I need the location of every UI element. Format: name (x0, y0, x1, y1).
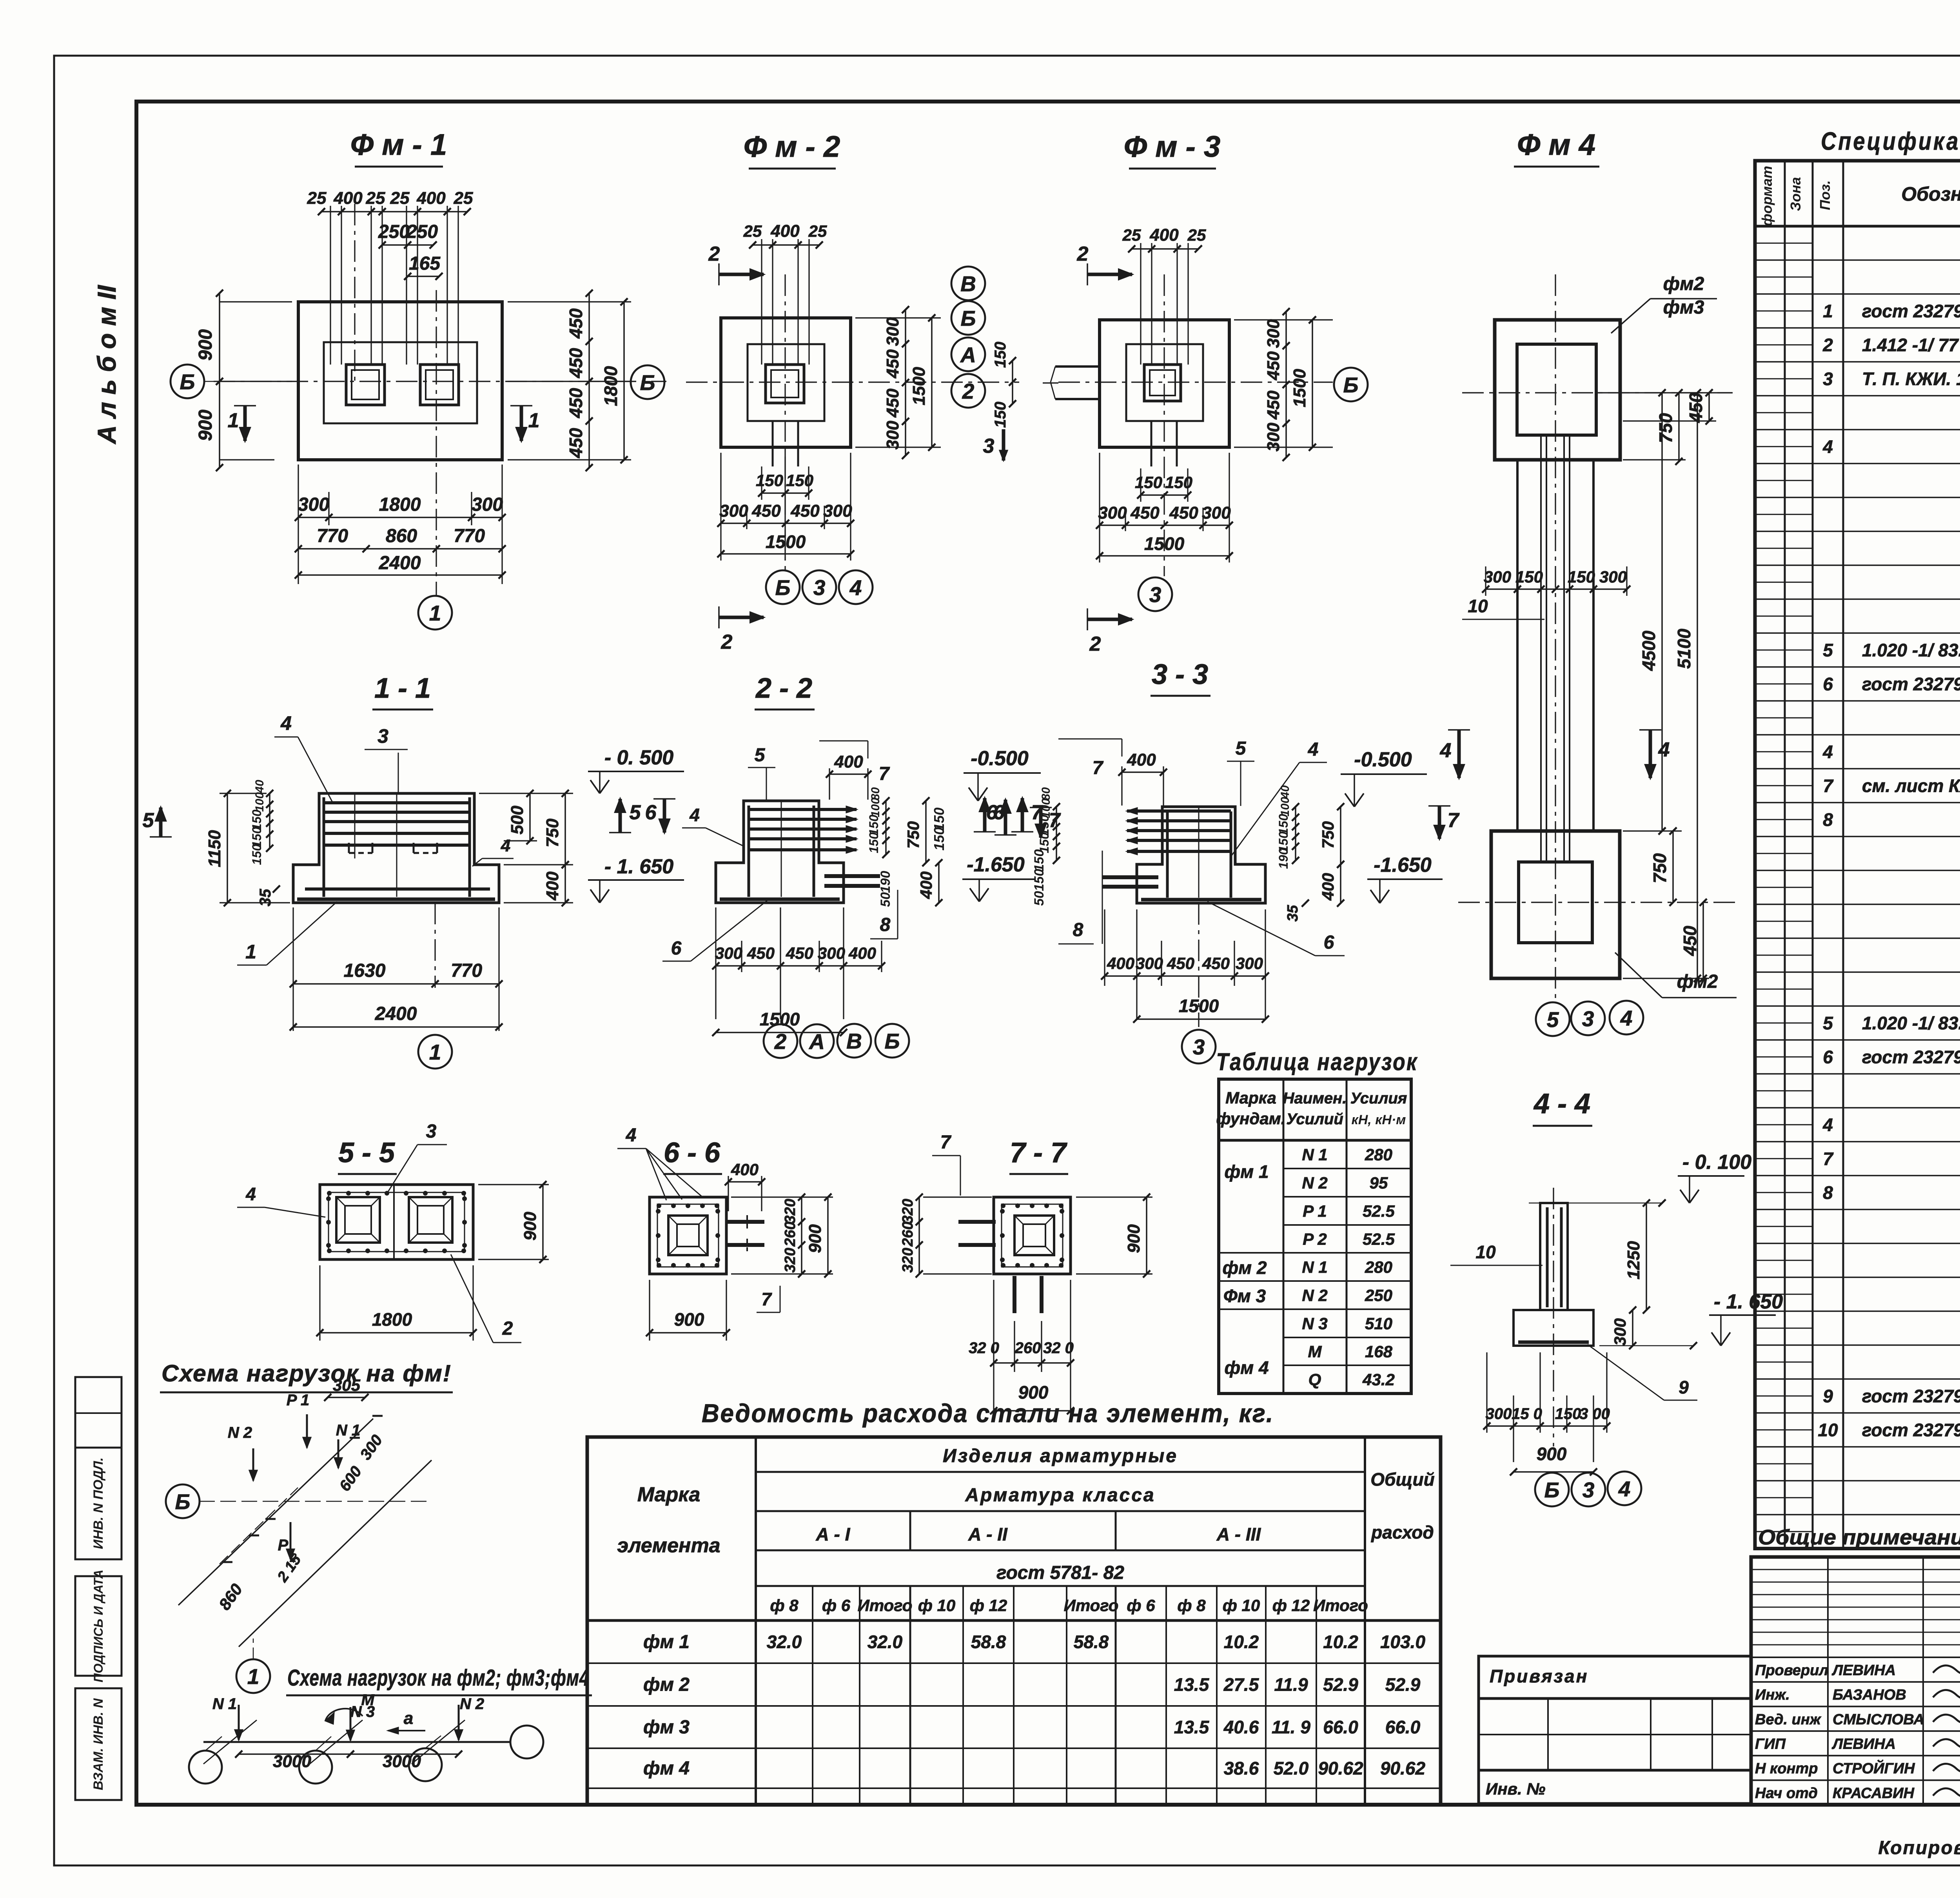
svg-text:770: 770 (451, 960, 482, 981)
svg-text:Б: Б (1544, 1478, 1560, 1502)
svg-text:Инв. №: Инв. № (1486, 1780, 1545, 1798)
svg-text:300: 300 (1264, 423, 1283, 452)
svg-text:150: 150 (1135, 473, 1162, 492)
Фм-1 top dimensions 25 400 25 25 400 25 (330, 206, 331, 365)
svg-text:Схема нагрузок на фм!: Схема нагрузок на фм! (162, 1360, 452, 1386)
svg-text:900: 900 (1124, 1224, 1143, 1253)
svg-text:кН, кН·м: кН, кН·м (1352, 1112, 1406, 1127)
Фм-3 right dim chain 300 450 450 300 (1234, 319, 1333, 320)
svg-text:расход: расход (1370, 1522, 1434, 1542)
svg-text:250: 250 (1365, 1286, 1392, 1305)
svg-text:1250: 1250 (1624, 1241, 1643, 1279)
svg-text:-0.500: -0.500 (1354, 748, 1412, 771)
svg-text:100: 100 (253, 792, 266, 812)
Фм-3 section mark 2 bottom (1087, 618, 1132, 621)
svg-text:Б: Б (775, 575, 791, 600)
svg-text:1500: 1500 (760, 1009, 800, 1029)
Фм-1 right dims 450x4 and 1800 (508, 301, 631, 302)
svg-text:400: 400 (416, 189, 446, 208)
svg-text:52.5: 52.5 (1363, 1202, 1395, 1220)
svg-text:2: 2 (774, 1029, 787, 1054)
section 1-1 label 3 (398, 753, 399, 793)
Фм4 right dims 750 450 top (1678, 393, 1680, 461)
section 3-3 lower anchor bars (1102, 875, 1158, 879)
section 5-5 dim 1800 (319, 1265, 320, 1341)
svg-text:13.5: 13.5 (1174, 1675, 1210, 1695)
svg-text:Б: Б (961, 306, 976, 330)
section 2-2 top dim 400 and label 7 (829, 768, 830, 800)
svg-text:165: 165 (409, 253, 441, 274)
svg-text:2: 2 (962, 379, 975, 403)
section 5-5 pocket right (409, 1197, 452, 1243)
section 5-5 pocket left (336, 1197, 380, 1243)
svg-text:3: 3 (983, 435, 995, 457)
svg-text:Итого: Итого (858, 1596, 913, 1615)
svg-text:5: 5 (1236, 738, 1247, 759)
svg-text:900: 900 (1537, 1444, 1567, 1464)
svg-text:32.0: 32.0 (767, 1632, 802, 1652)
Фм-3 footing outline (1100, 320, 1229, 447)
svg-text:3: 3 (426, 1121, 437, 1142)
Фм-1 axis circle Б left (171, 365, 204, 398)
svg-text:фм 2: фм 2 (1222, 1257, 1267, 1278)
Фм-1 axes (214, 381, 666, 382)
svg-text:260: 260 (1014, 1339, 1041, 1357)
svg-text:100: 100 (869, 798, 882, 817)
svg-text:450: 450 (1169, 503, 1198, 523)
svg-text:гост 23279 - 85: гост 23279 - 85 (1862, 1047, 1960, 1067)
svg-text:5100: 5100 (1674, 628, 1694, 669)
svg-text:фм 1: фм 1 (643, 1632, 690, 1653)
section 3-3 bottom dims 400 300 450 450 300 (1104, 909, 1105, 986)
svg-text:6: 6 (986, 801, 998, 824)
svg-text:4500: 4500 (1639, 630, 1659, 671)
Фм-3 adjoining wall strip left (1055, 365, 1100, 368)
svg-text:900: 900 (195, 410, 216, 441)
svg-text:4: 4 (501, 836, 510, 855)
svg-text:6 - 6: 6 - 6 (664, 1137, 720, 1169)
Фм4 axes (1555, 274, 1556, 1003)
svg-text:4: 4 (1822, 1114, 1833, 1135)
svg-text:Б: Б (175, 1490, 191, 1514)
svg-text:N 2: N 2 (228, 1424, 252, 1441)
svg-text:80: 80 (1040, 787, 1053, 800)
svg-text:52.9: 52.9 (1323, 1675, 1358, 1695)
svg-text:400: 400 (333, 189, 363, 208)
section 7-7 outline (994, 1197, 1071, 1274)
svg-text:150: 150 (1165, 473, 1192, 492)
svg-text:9: 9 (1823, 1386, 1833, 1406)
svg-text:25: 25 (808, 222, 827, 240)
section 6-6 protruding bars right (726, 1220, 764, 1224)
svg-text:8: 8 (1823, 809, 1833, 830)
Фм-1 section mark 1 left (243, 406, 247, 441)
svg-text:ф 12: ф 12 (1272, 1596, 1310, 1615)
svg-text:300: 300 (818, 944, 845, 962)
svg-text:150: 150 (931, 827, 947, 851)
svg-text:1: 1 (1823, 301, 1833, 321)
svg-text:ф 8: ф 8 (770, 1596, 799, 1615)
section 7-7 bottom dims 320 260 320 900 (993, 1280, 994, 1415)
svg-text:10: 10 (1468, 596, 1488, 616)
Фм-3 top dims 25 400 25 (1140, 243, 1141, 365)
svg-text:35: 35 (257, 889, 274, 906)
svg-text:4: 4 (849, 575, 862, 600)
svg-text:N 1: N 1 (212, 1695, 237, 1713)
section 4-4 dim 1250 (1646, 1203, 1647, 1310)
load table grid (1219, 1079, 1411, 1394)
svg-text:ф 10: ф 10 (1223, 1596, 1260, 1615)
Фм-2 bottom dims 150 150 (784, 451, 786, 561)
svg-text:7: 7 (1448, 809, 1460, 832)
svg-text:Зона: Зона (1788, 177, 1804, 211)
svg-text:Итого: Итого (1064, 1596, 1119, 1615)
svg-text:400: 400 (1319, 873, 1337, 901)
section 4-4 column (1540, 1203, 1568, 1310)
svg-text:5: 5 (1547, 1007, 1559, 1032)
svg-text:1: 1 (228, 409, 239, 432)
svg-text:Б: Б (180, 370, 195, 394)
svg-text:А - I: А - I (816, 1524, 851, 1544)
svg-text:450: 450 (1686, 392, 1706, 423)
section 2-2 bottom dims 300 450 450 300 400 (715, 907, 716, 1019)
left margin stamp strip boxes (75, 1377, 122, 1448)
svg-text:52.0: 52.0 (1274, 1758, 1309, 1778)
svg-text:ф 8: ф 8 (1177, 1596, 1206, 1615)
svg-text:гост 23279 - 85: гост 23279 - 85 (1862, 301, 1960, 321)
svg-text:Схема нагрузок на фм2; фм3;фм4: Схема нагрузок на фм2; фм3;фм4 (287, 1665, 589, 1691)
svg-text:гост 5781- 82: гост 5781- 82 (996, 1562, 1124, 1583)
svg-text:260: 260 (900, 1221, 916, 1247)
svg-text:4: 4 (1440, 739, 1452, 762)
section 4-4 axis (1553, 1188, 1554, 1446)
svg-text:А - III: А - III (1216, 1524, 1261, 1544)
svg-text:4: 4 (1822, 436, 1833, 457)
svg-text:СТРОЙГИН: СТРОЙГИН (1833, 1759, 1915, 1777)
svg-text:10.2: 10.2 (1224, 1632, 1259, 1652)
svg-text:66.0: 66.0 (1323, 1717, 1358, 1737)
svg-text:103.0: 103.0 (1380, 1632, 1426, 1652)
section 1-1 axis circle 1 (418, 1035, 452, 1069)
Фм-1 bottom dims 300 1800 300 (298, 465, 299, 584)
steel table header rows (756, 1471, 1365, 1473)
Фм-1 bottom dims 770 860 770 (298, 548, 502, 550)
svg-text:3 - 3: 3 - 3 (1152, 659, 1208, 690)
Фм-2 axes (686, 381, 1019, 383)
svg-text:300: 300 (823, 501, 852, 521)
section 3-3 sole line (1141, 898, 1261, 902)
svg-text:32 0: 32 0 (969, 1339, 999, 1357)
svg-text:250: 250 (406, 221, 438, 242)
svg-text:280: 280 (1365, 1258, 1392, 1276)
section 7-7 pocket (1014, 1216, 1054, 1255)
svg-text:2: 2 (502, 1318, 513, 1339)
load scheme 1 circles (166, 1484, 200, 1518)
svg-text:10: 10 (1818, 1420, 1838, 1440)
Фм-3 bottom dims 150 150 (1140, 468, 1141, 502)
svg-text:300: 300 (1599, 568, 1627, 586)
svg-text:- 0. 500: - 0. 500 (604, 746, 673, 769)
Фм-2 section mark 2 bottom (719, 616, 764, 619)
svg-text:300: 300 (1136, 954, 1163, 973)
svg-text:N 2: N 2 (1302, 1174, 1327, 1192)
section 3-3 section marks 6 7 left (1004, 800, 1007, 835)
Фм4 long dims 4500 5100 (1661, 393, 1663, 831)
svg-text:43.2: 43.2 (1362, 1370, 1395, 1389)
svg-text:Q: Q (1308, 1370, 1321, 1389)
Фм4 bottom-left dims 300 150 150 300 (1486, 588, 1627, 590)
svg-text:4: 4 (626, 1125, 637, 1146)
svg-text:ВЗАМ. ИНВ. N: ВЗАМ. ИНВ. N (91, 1698, 106, 1790)
section 2-2 rebar with protruding bars (749, 808, 857, 811)
svg-text:А: А (960, 343, 976, 367)
svg-text:6: 6 (645, 801, 657, 824)
Фм-1 column pocket left (346, 365, 385, 405)
svg-text:3 00: 3 00 (1579, 1405, 1610, 1423)
svg-text:2400: 2400 (379, 553, 421, 573)
svg-text:25: 25 (454, 189, 473, 208)
svg-text:7: 7 (1823, 775, 1834, 796)
svg-text:95: 95 (1370, 1174, 1388, 1192)
svg-text:Ф м - 1: Ф м - 1 (350, 128, 447, 161)
svg-text:150: 150 (1515, 568, 1543, 586)
section 3-3 section marks right 4 7 (1438, 806, 1441, 839)
section 4-4 flange (1514, 1310, 1593, 1346)
svg-text:5: 5 (1823, 640, 1833, 660)
Фм-3 column pocket (1144, 365, 1181, 401)
svg-text:150: 150 (992, 402, 1009, 428)
svg-text:N 1: N 1 (1302, 1145, 1327, 1164)
svg-text:ПОДПИСЬ И ДАТА: ПОДПИСЬ И ДАТА (91, 1570, 105, 1682)
Фм4 top anchor block inner (1517, 344, 1596, 435)
svg-text:В: В (846, 1029, 862, 1053)
svg-text:450: 450 (1202, 954, 1230, 973)
svg-text:2: 2 (1822, 335, 1833, 355)
svg-text:900: 900 (521, 1212, 540, 1241)
svg-text:8: 8 (880, 915, 891, 935)
Фм-1 section mark 1 right (520, 406, 523, 441)
svg-text:450: 450 (883, 349, 902, 379)
section 6-6 right dims 320 260 320 900 (801, 1197, 802, 1274)
svg-text:ф 10: ф 10 (918, 1596, 956, 1615)
svg-text:7: 7 (761, 1289, 772, 1309)
svg-text:формат: формат (1759, 166, 1775, 226)
svg-text:1500: 1500 (766, 532, 806, 552)
svg-text:7: 7 (940, 1132, 952, 1153)
svg-text:450: 450 (566, 388, 586, 418)
svg-text:В: В (960, 272, 976, 296)
svg-text:52.5: 52.5 (1363, 1230, 1395, 1248)
section 6-6 outline (650, 1197, 726, 1274)
svg-text:860: 860 (386, 526, 417, 546)
svg-text:a: a (404, 1709, 413, 1728)
Фм4 leader фм2 bottom (1615, 953, 1662, 998)
svg-text:Усилия: Усилия (1350, 1090, 1407, 1107)
Фм-2 section mark 3 (1002, 429, 1005, 461)
svg-text:10.2: 10.2 (1323, 1632, 1358, 1652)
svg-text:гост 23279 - 85: гост 23279 - 85 (1862, 1386, 1960, 1406)
svg-text:5: 5 (755, 745, 766, 766)
svg-text:90.62: 90.62 (1380, 1758, 1426, 1778)
svg-text:300: 300 (883, 317, 902, 346)
svg-text:фм 4: фм 4 (1224, 1357, 1269, 1378)
svg-text:150: 150 (1032, 869, 1047, 891)
svg-text:N 1: N 1 (1302, 1258, 1327, 1276)
Фм4 column shaft (1516, 460, 1519, 831)
svg-text:3: 3 (377, 725, 388, 747)
svg-text:300: 300 (1236, 954, 1263, 973)
steel table outer (587, 1437, 1441, 1805)
svg-text:6: 6 (671, 938, 682, 959)
svg-text:5: 5 (630, 801, 641, 824)
svg-text:фундам.: фундам. (1216, 1109, 1286, 1128)
svg-text:P 1: P 1 (287, 1392, 310, 1409)
svg-text:25: 25 (390, 189, 410, 208)
title block signature rows (1751, 1657, 1960, 1658)
section 3-3 left dim stack (1056, 807, 1057, 860)
Фм-1 dim 250 250 (382, 244, 433, 246)
svg-text:-1.650: -1.650 (1374, 854, 1432, 876)
svg-text:Ф м - 2: Ф м - 2 (744, 130, 840, 163)
svg-text:190: 190 (1276, 848, 1290, 869)
svg-text:гост 23279 - 85: гост 23279 - 85 (1862, 1420, 1960, 1440)
svg-text:фм 4: фм 4 (643, 1758, 690, 1779)
section 1-1 section marks 5 6 (159, 807, 163, 837)
section 1-1 sole line (297, 898, 495, 901)
svg-text:50: 50 (1032, 891, 1047, 906)
Фм4 axis circles 5 3 4 (1536, 1002, 1570, 1036)
svg-text:ЛЕВИНА: ЛЕВИНА (1831, 1736, 1896, 1752)
section 2-2 right dim stacks (885, 801, 887, 855)
svg-text:Б: Б (640, 370, 655, 395)
svg-text:1: 1 (247, 1664, 260, 1689)
svg-text:280: 280 (1365, 1145, 1392, 1164)
svg-text:900: 900 (195, 329, 216, 361)
specification table outer and columns (1755, 161, 1960, 1549)
svg-text:150: 150 (992, 342, 1009, 368)
svg-text:500: 500 (508, 806, 527, 835)
svg-text:168: 168 (1365, 1343, 1393, 1361)
Фм-1 column pocket right (420, 365, 459, 405)
steel table header col splits (909, 1511, 911, 1550)
svg-text:N 2: N 2 (1302, 1286, 1327, 1305)
svg-text:150: 150 (1032, 849, 1047, 872)
svg-text:400: 400 (917, 871, 935, 899)
svg-text:4: 4 (1308, 739, 1319, 760)
Фм-1 footing outline (298, 302, 502, 460)
svg-text:ф 12: ф 12 (970, 1596, 1007, 1615)
svg-text:ИНВ. N ПОДЛ.: ИНВ. N ПОДЛ. (91, 1457, 106, 1549)
section 3-3 axis circle 3 (1198, 903, 1199, 1027)
section 5-5 dim 900 (478, 1184, 549, 1185)
svg-text:10: 10 (1475, 1242, 1496, 1262)
section 6-6 pocket (668, 1216, 708, 1255)
svg-text:450: 450 (786, 944, 813, 962)
svg-text:300: 300 (1202, 503, 1231, 523)
svg-text:3: 3 (1149, 582, 1161, 607)
svg-text:190: 190 (878, 871, 893, 893)
Фм-3 section mark 2 top (1087, 273, 1132, 276)
svg-text:300: 300 (472, 494, 503, 515)
svg-text:750: 750 (1650, 853, 1670, 883)
svg-text:P: P (278, 1537, 289, 1554)
svg-text:58.8: 58.8 (1074, 1632, 1109, 1652)
svg-text:Фм 3: Фм 3 (1223, 1286, 1266, 1306)
section 6-6 dim 900 bottom (649, 1280, 650, 1341)
Фм-2 footing outline (721, 318, 851, 447)
svg-text:фм 2: фм 2 (643, 1675, 690, 1695)
section 5-5 outline (320, 1185, 473, 1259)
svg-text:P 2: P 2 (1303, 1230, 1327, 1248)
svg-text:450: 450 (1130, 503, 1160, 523)
Фм-2 bottom dims 300 450 450 300 (720, 453, 721, 561)
svg-text:300: 300 (883, 421, 902, 450)
svg-text:4: 4 (1822, 742, 1833, 762)
svg-text:750: 750 (904, 821, 922, 849)
svg-text:38.6: 38.6 (1224, 1758, 1259, 1778)
section 3-3 top dim 400 and label 7 (1121, 766, 1122, 806)
svg-text:Итого: Итого (1313, 1596, 1368, 1615)
svg-text:40: 40 (1279, 785, 1292, 799)
svg-text:Арматура класса: Арматура класса (965, 1485, 1155, 1506)
svg-text:400: 400 (1149, 225, 1179, 245)
svg-text:1800: 1800 (379, 494, 421, 515)
Фм-1 bottom dim 2400 (298, 574, 502, 576)
svg-text:4: 4 (689, 805, 700, 825)
svg-text:фм2: фм2 (1663, 274, 1704, 294)
section 2-2 axis circles 2 А В Б (764, 1024, 797, 1058)
svg-text:400: 400 (731, 1160, 759, 1179)
svg-text:- 0. 100: - 0. 100 (1682, 1151, 1751, 1174)
svg-text:770: 770 (317, 526, 348, 546)
privyazan block (1479, 1656, 1751, 1698)
title block thin rows top-left (1751, 1569, 1960, 1570)
svg-text:7: 7 (1823, 1149, 1834, 1169)
svg-text:7: 7 (1049, 809, 1061, 832)
svg-text:элемента: элемента (617, 1534, 720, 1557)
Фм-2 section mark 2 top (719, 273, 764, 276)
section 7-7 right dim 900 (1076, 1196, 1152, 1198)
svg-text:150: 150 (756, 471, 783, 490)
svg-text:32.0: 32.0 (867, 1632, 903, 1652)
svg-text:3: 3 (813, 575, 826, 600)
svg-text:Ф м - 3: Ф м - 3 (1124, 130, 1220, 163)
svg-text:N 2: N 2 (460, 1695, 484, 1713)
svg-text:КРАСАВИН: КРАСАВИН (1833, 1785, 1915, 1802)
svg-text:Ф м 4: Ф м 4 (1517, 128, 1595, 161)
svg-text:1150: 1150 (205, 830, 224, 867)
svg-text:450: 450 (566, 348, 586, 378)
Фм-2 wall stub below (772, 421, 774, 466)
svg-text:4: 4 (1620, 1006, 1633, 1030)
svg-text:450: 450 (747, 944, 775, 962)
svg-text:7: 7 (879, 764, 890, 784)
svg-text:300: 300 (719, 501, 748, 521)
svg-text:4 - 4: 4 - 4 (1533, 1088, 1590, 1120)
svg-text:фм3: фм3 (1663, 297, 1704, 318)
Фм-2 axis circles Б 3 4 (766, 570, 800, 604)
svg-text:А: А (808, 1029, 825, 1054)
svg-text:25: 25 (743, 222, 762, 240)
svg-text:4: 4 (1618, 1477, 1631, 1501)
svg-text:400: 400 (543, 871, 562, 901)
svg-text:6: 6 (1324, 932, 1334, 953)
svg-text:770: 770 (454, 526, 485, 546)
svg-text:ф 6: ф 6 (1127, 1596, 1155, 1615)
svg-text:5 - 5: 5 - 5 (338, 1137, 395, 1169)
svg-text:400: 400 (770, 221, 800, 241)
Фм4 leader фм2 фм3 (1611, 299, 1650, 333)
